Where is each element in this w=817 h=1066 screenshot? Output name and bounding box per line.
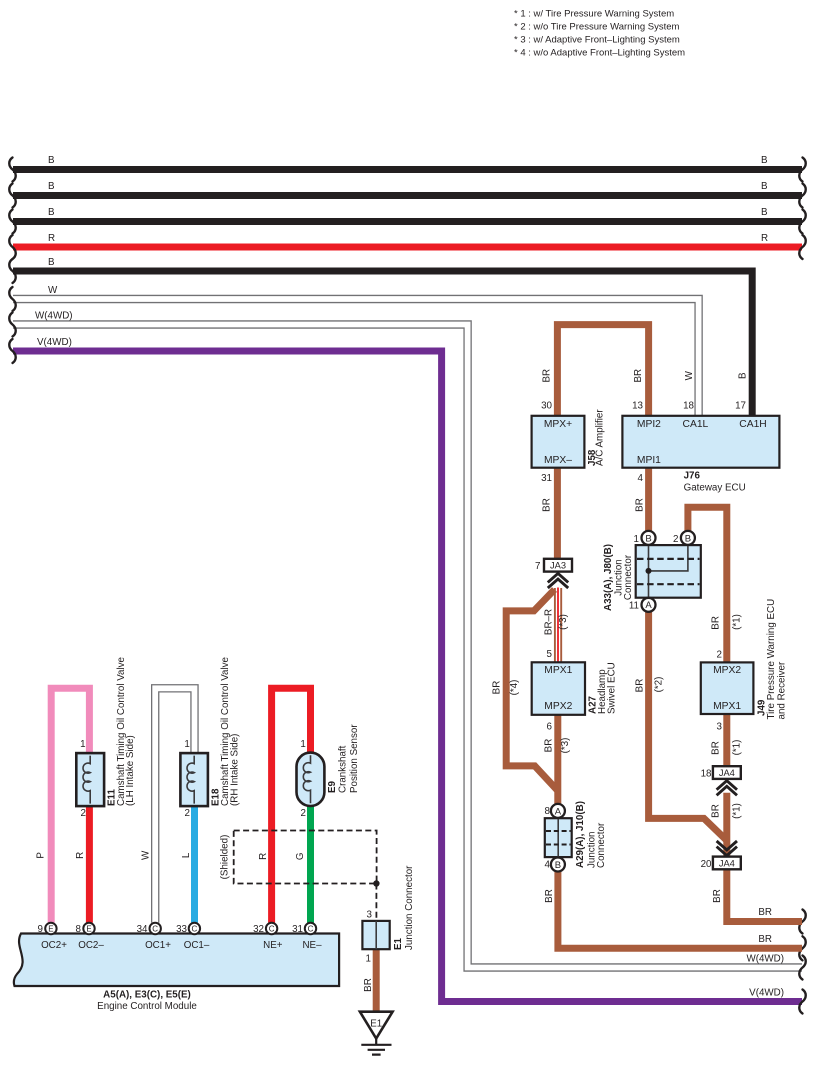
svg-text:6: 6 <box>547 722 553 733</box>
svg-text:(*1): (*1) <box>732 740 743 756</box>
svg-text:(*3): (*3) <box>558 614 569 630</box>
svg-text:MPI1: MPI1 <box>637 455 661 466</box>
svg-text:BR: BR <box>712 889 723 903</box>
svg-text:Crankshaft: Crankshaft <box>337 745 348 793</box>
svg-text:C: C <box>269 924 275 933</box>
svg-text:2: 2 <box>301 808 306 819</box>
svg-text:* 3 : w/ Adaptive Front–Lighti: * 3 : w/ Adaptive Front–Lighting System <box>514 35 680 46</box>
svg-text:E1: E1 <box>370 1019 382 1030</box>
svg-text:BR: BR <box>758 907 772 918</box>
svg-text:B: B <box>48 207 55 218</box>
svg-text:A29(A), J10(B): A29(A), J10(B) <box>575 801 586 868</box>
svg-text:Connector: Connector <box>596 822 607 868</box>
svg-text:B: B <box>48 155 55 166</box>
svg-text:BR: BR <box>634 679 645 693</box>
svg-text:3: 3 <box>717 722 723 733</box>
svg-text:NE+: NE+ <box>263 940 283 951</box>
svg-text:E1: E1 <box>393 937 404 950</box>
svg-text:(RH Intake Side): (RH Intake Side) <box>229 734 240 806</box>
svg-text:* 4 : w/o Adaptive Front–Light: * 4 : w/o Adaptive Front–Lighting System <box>514 48 685 59</box>
svg-text:BR: BR <box>635 498 646 512</box>
svg-text:31: 31 <box>541 473 552 484</box>
svg-text:4: 4 <box>638 473 644 484</box>
svg-text:A: A <box>555 806 562 817</box>
svg-text:Engine Control Module: Engine Control Module <box>97 1001 197 1012</box>
svg-text:8: 8 <box>76 924 82 935</box>
svg-text:33: 33 <box>176 924 187 935</box>
svg-text:E9: E9 <box>327 780 338 793</box>
svg-text:E: E <box>48 924 53 933</box>
svg-text:J76: J76 <box>684 471 701 482</box>
svg-text:V(4WD): V(4WD) <box>749 988 784 999</box>
svg-text:OC2+: OC2+ <box>41 940 67 951</box>
svg-text:1: 1 <box>634 534 639 545</box>
svg-text:9: 9 <box>38 924 43 935</box>
svg-text:5: 5 <box>547 649 553 660</box>
svg-text:Gateway ECU: Gateway ECU <box>684 483 746 494</box>
svg-text:C: C <box>152 924 158 933</box>
svg-text:32: 32 <box>253 924 264 935</box>
svg-text:L: L <box>181 852 192 858</box>
svg-text:B: B <box>761 155 768 166</box>
svg-text:BR: BR <box>491 681 502 695</box>
svg-text:BR: BR <box>633 369 644 383</box>
svg-text:R: R <box>258 853 269 860</box>
svg-text:B: B <box>738 372 749 379</box>
svg-text:BR: BR <box>542 369 553 383</box>
svg-text:MPX2: MPX2 <box>544 701 572 712</box>
svg-text:OC2–: OC2– <box>78 940 104 951</box>
svg-text:3: 3 <box>367 910 373 921</box>
svg-text:13: 13 <box>632 401 643 412</box>
svg-text:(*1): (*1) <box>732 614 743 630</box>
svg-text:MPX1: MPX1 <box>713 701 741 712</box>
svg-text:7: 7 <box>535 561 540 572</box>
svg-text:JA4: JA4 <box>719 858 735 868</box>
svg-text:MPX+: MPX+ <box>544 419 572 430</box>
svg-text:and Receiver: and Receiver <box>776 661 787 719</box>
svg-text:* 1 : w/ Tire Pressure Warning: * 1 : w/ Tire Pressure Warning System <box>514 9 674 20</box>
svg-text:* 2 : w/o Tire Pressure Warnin: * 2 : w/o Tire Pressure Warning System <box>514 22 680 33</box>
svg-text:JA4: JA4 <box>719 768 735 778</box>
svg-text:2: 2 <box>717 650 722 661</box>
svg-text:(*3): (*3) <box>560 738 571 754</box>
svg-text:BR: BR <box>710 804 721 818</box>
svg-text:BR: BR <box>544 889 555 903</box>
svg-text:31: 31 <box>292 924 303 935</box>
svg-text:MPX2: MPX2 <box>713 665 741 676</box>
svg-text:NE–: NE– <box>302 940 322 951</box>
svg-text:B: B <box>48 181 55 192</box>
svg-text:34: 34 <box>137 924 148 935</box>
svg-text:BR–R: BR–R <box>544 609 555 635</box>
svg-text:BR: BR <box>710 616 721 630</box>
svg-text:A5(A), E3(C), E5(E): A5(A), E3(C), E5(E) <box>103 989 191 1000</box>
svg-text:W: W <box>48 285 58 296</box>
svg-text:MPX–: MPX– <box>544 455 572 466</box>
svg-text:B: B <box>48 257 55 268</box>
svg-text:Swivel ECU: Swivel ECU <box>606 662 617 714</box>
svg-text:1: 1 <box>80 739 85 750</box>
svg-text:E: E <box>86 924 91 933</box>
svg-text:2: 2 <box>185 808 190 819</box>
svg-text:(*4): (*4) <box>509 680 520 696</box>
svg-text:R: R <box>48 233 55 244</box>
svg-text:Position Sensor: Position Sensor <box>349 724 360 793</box>
svg-text:1: 1 <box>366 954 371 965</box>
svg-text:Connector: Connector <box>623 554 634 600</box>
svg-text:BR: BR <box>710 741 721 755</box>
svg-text:BR: BR <box>758 934 772 945</box>
svg-text:18: 18 <box>683 401 694 412</box>
svg-text:R: R <box>75 852 86 859</box>
svg-text:(*1): (*1) <box>732 803 743 819</box>
svg-text:B: B <box>685 533 691 544</box>
svg-text:G: G <box>295 852 306 860</box>
svg-text:17: 17 <box>735 401 746 412</box>
svg-text:BR: BR <box>363 978 374 992</box>
svg-text:(*2): (*2) <box>654 677 665 693</box>
svg-text:W: W <box>140 850 151 860</box>
svg-text:CA1H: CA1H <box>739 419 766 430</box>
svg-text:W: W <box>684 370 695 380</box>
svg-text:(LH Intake Side): (LH Intake Side) <box>125 735 136 806</box>
svg-text:4: 4 <box>545 859 551 870</box>
svg-text:1: 1 <box>300 739 305 750</box>
svg-text:Junction Connector: Junction Connector <box>404 865 415 950</box>
svg-text:B: B <box>761 181 768 192</box>
svg-text:P: P <box>35 852 46 859</box>
svg-text:W(4WD): W(4WD) <box>746 954 784 965</box>
svg-text:18: 18 <box>701 769 712 780</box>
svg-text:2: 2 <box>673 534 678 545</box>
svg-text:A: A <box>645 600 652 611</box>
svg-text:B: B <box>761 207 768 218</box>
svg-text:W(4WD): W(4WD) <box>35 311 73 322</box>
svg-text:OC1–: OC1– <box>184 940 210 951</box>
svg-text:JA3: JA3 <box>550 561 566 571</box>
svg-text:CA1L: CA1L <box>683 419 709 430</box>
svg-text:C: C <box>308 924 314 933</box>
svg-text:BR: BR <box>544 739 555 753</box>
svg-text:1: 1 <box>184 739 189 750</box>
svg-text:B: B <box>555 860 561 871</box>
svg-text:B: B <box>645 533 651 544</box>
svg-text:A/C Amplifier: A/C Amplifier <box>595 409 606 466</box>
svg-text:(Shielded): (Shielded) <box>219 835 230 880</box>
svg-text:MPI2: MPI2 <box>637 419 661 430</box>
svg-text:R: R <box>761 233 768 244</box>
svg-text:30: 30 <box>541 401 552 412</box>
svg-text:8: 8 <box>545 806 551 817</box>
svg-text:OC1+: OC1+ <box>145 940 171 951</box>
svg-text:C: C <box>192 924 198 933</box>
svg-text:V(4WD): V(4WD) <box>37 337 72 348</box>
svg-text:11: 11 <box>629 601 639 612</box>
svg-text:20: 20 <box>701 859 712 870</box>
svg-text:BR: BR <box>542 498 553 512</box>
svg-text:MPX1: MPX1 <box>544 665 572 676</box>
svg-text:2: 2 <box>81 808 86 819</box>
